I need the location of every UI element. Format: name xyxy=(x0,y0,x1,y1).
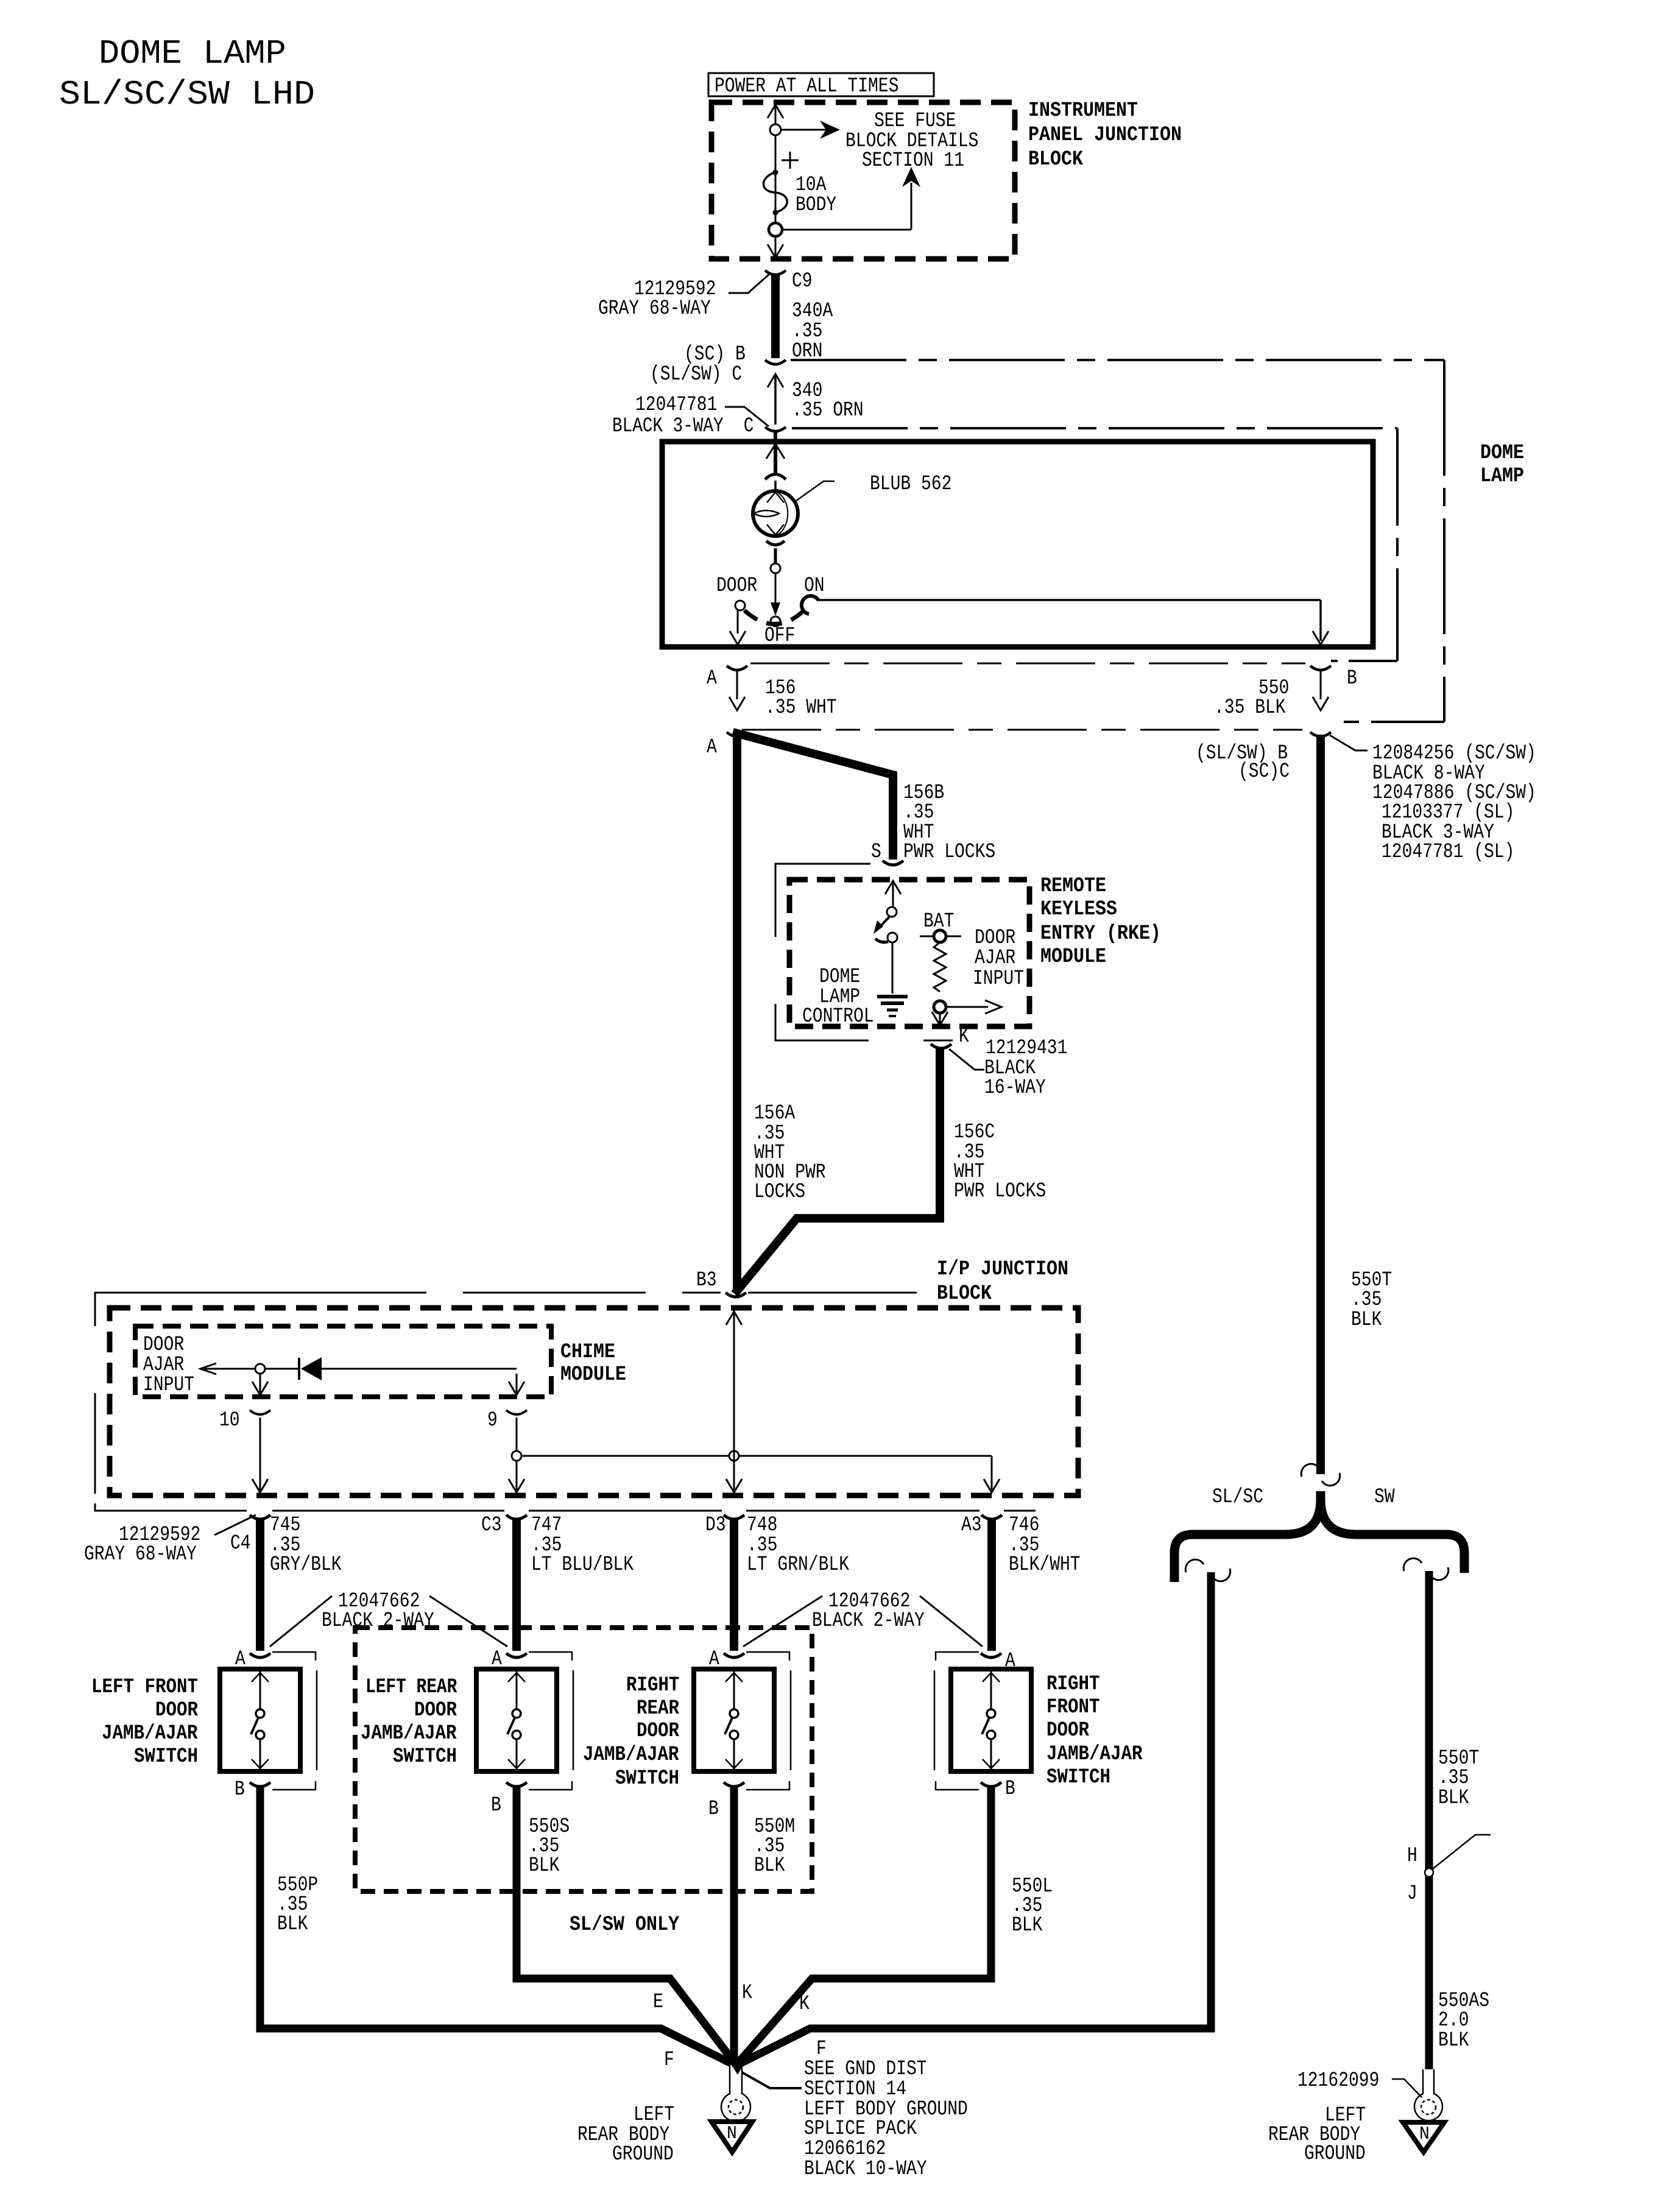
wire from power feed xyxy=(775,105,777,258)
connector A half of right front door jamb switch xyxy=(981,1653,1001,1657)
ground bar 3 xyxy=(887,1009,898,1012)
ground bar 1 xyxy=(877,995,908,998)
svg-text:BLK: BLK xyxy=(1438,2029,1469,2052)
connector B3 half xyxy=(725,1293,746,1297)
pin 9 wire arrowhead xyxy=(509,1479,524,1492)
svg-text:SL/SC: SL/SC xyxy=(1212,1486,1263,1509)
left rear door jamb switch upper lead xyxy=(516,1672,518,1709)
IPJB bracket bottom seg 4 xyxy=(1004,1510,1036,1512)
svg-text:B3: B3 xyxy=(696,1269,717,1292)
IPJB bracket bottom seg 1 xyxy=(272,1510,504,1512)
RKE module outline xyxy=(789,880,1029,1026)
wire 746 xyxy=(987,1518,996,1651)
leader to connector C xyxy=(725,407,769,426)
harness bracket line xyxy=(742,729,1302,731)
left front door jamb switch pivot contact xyxy=(256,1709,264,1718)
fuse end dot bottom xyxy=(773,210,778,215)
left rear door jamb switch bracket side xyxy=(573,1670,574,1770)
svg-text:INPUT: INPUT xyxy=(973,967,1024,990)
connector A3 harness half xyxy=(981,1515,1002,1519)
svg-text:MODULE: MODULE xyxy=(560,1363,626,1386)
svg-text:A3: A3 xyxy=(961,1514,982,1537)
svg-text:POWER AT ALL TIMES: POWER AT ALL TIMES xyxy=(715,75,898,98)
power label box xyxy=(708,73,934,96)
A3 drop arrowhead xyxy=(984,1479,1000,1492)
diode D1 xyxy=(301,1357,322,1380)
dome lamp enclosure outer bottom xyxy=(1344,721,1444,723)
RKE bracket left xyxy=(775,864,777,1040)
RKE switch pivot xyxy=(887,907,897,917)
svg-text:(SL/SW) C: (SL/SW) C xyxy=(650,363,742,386)
svg-text:GROUND: GROUND xyxy=(612,2143,674,2166)
ON contact hook xyxy=(802,596,819,614)
left rear door jamb switch top tick xyxy=(508,1673,525,1682)
wire 745 xyxy=(256,1518,264,1651)
wire 550S run xyxy=(517,1786,734,2062)
right rear door jamb switch top tick xyxy=(725,1673,743,1682)
splice junction wedge xyxy=(726,2056,748,2075)
ON feed arrowhead xyxy=(1313,631,1329,644)
connector 9 half xyxy=(506,1410,527,1414)
svg-text:CHIME: CHIME xyxy=(560,1341,615,1364)
svg-text:B: B xyxy=(235,1778,245,1801)
svg-text:K: K xyxy=(742,1982,752,2005)
svg-text:12047781 (SL): 12047781 (SL) xyxy=(1382,841,1514,864)
ground symbol N right xyxy=(1403,2122,1444,2152)
IPJB bracket top xyxy=(244,1292,721,1294)
leader 12047662 to C4 switch xyxy=(270,1596,332,1647)
switch common drop xyxy=(775,573,777,606)
connector C4 harness half xyxy=(250,1515,270,1519)
wire 156C run xyxy=(735,1047,940,1294)
fuse 10A BODY symbol xyxy=(763,172,787,213)
SW break squiggle upper xyxy=(1403,1558,1422,1571)
I/P junction block outline xyxy=(110,1308,1078,1495)
svg-text:F: F xyxy=(664,2049,674,2072)
connector B half of left front door jamb switch xyxy=(250,1782,270,1787)
svg-text:DOME: DOME xyxy=(1480,442,1524,465)
svg-text:INPUT: INPUT xyxy=(143,1374,194,1397)
pin 9 wire in block xyxy=(516,1417,518,1490)
DOOR contact xyxy=(735,601,745,610)
ring terminal left hole xyxy=(729,2100,743,2114)
B3 wire arrowhead up xyxy=(726,1312,742,1325)
RKE contact curl xyxy=(875,939,888,942)
diode bar xyxy=(298,1358,300,1380)
svg-text:PWR LOCKS: PWR LOCKS xyxy=(903,841,995,864)
svg-text:KEYLESS: KEYLESS xyxy=(1040,898,1117,921)
wire 748 xyxy=(730,1518,738,1651)
svg-text:BLK/WHT: BLK/WHT xyxy=(1009,1553,1081,1576)
svg-text:B: B xyxy=(1347,667,1357,690)
fuse end dot top xyxy=(773,170,778,175)
left rear door jamb switch box xyxy=(476,1669,557,1771)
chime junction node xyxy=(255,1364,265,1374)
left front door jamb switch lower contact xyxy=(256,1731,264,1739)
RKE switch blade xyxy=(878,917,889,928)
dome lamp enclosure outer top xyxy=(791,359,1444,361)
svg-text:C4: C4 xyxy=(230,1532,251,1555)
svg-text:RIGHT: RIGHT xyxy=(626,1674,680,1697)
IPJB bracket bottom left corner xyxy=(95,1503,247,1511)
left front door jamb switch box xyxy=(220,1669,300,1771)
crossbar to A3 xyxy=(521,1455,992,1457)
plus mark xyxy=(782,152,799,169)
svg-text:OFF: OFF xyxy=(764,624,795,648)
right front door jamb switch blade xyxy=(982,1718,989,1734)
svg-text:ON: ON xyxy=(804,574,825,598)
RKE bracket top xyxy=(775,864,870,872)
pin 10 wire arrowhead xyxy=(252,1479,268,1492)
svg-text:N: N xyxy=(1419,2124,1430,2145)
wire to section arrow xyxy=(782,229,911,231)
dome lamp enclosure inner top xyxy=(792,427,1397,429)
riser to section arrow xyxy=(911,183,912,230)
svg-text:BLK: BLK xyxy=(529,1854,560,1877)
bulb socket upper arc xyxy=(765,475,786,480)
node on B3 wire xyxy=(729,1451,739,1461)
BAT contact lead left xyxy=(920,936,934,937)
pin A lamp-side half xyxy=(727,666,747,670)
ring terminal right outline xyxy=(1414,2069,1442,2120)
left rear door jamb switch bracket bottom xyxy=(529,1781,572,1790)
svg-text:.35 BLK: .35 BLK xyxy=(1214,696,1286,719)
left front door jamb switch top tick xyxy=(252,1673,269,1682)
right front door jamb switch bracket bottom xyxy=(936,1781,979,1790)
svg-text:AJAR: AJAR xyxy=(975,947,1015,970)
wire 550T SW run xyxy=(1425,1571,1433,2069)
left rear door jamb switch lower contact xyxy=(512,1731,521,1739)
connector C9 upper half xyxy=(765,270,786,275)
arrowhead to fuse note xyxy=(820,121,840,139)
chime input line xyxy=(204,1368,256,1370)
wire 550 break squiggle lower xyxy=(1322,1473,1340,1486)
right front door jamb switch pivot contact xyxy=(987,1709,995,1718)
switch wiper arrowhead xyxy=(771,602,780,616)
svg-text:S: S xyxy=(871,841,881,864)
chime input arrowhead xyxy=(200,1363,216,1374)
leader to bulb label xyxy=(796,481,835,501)
svg-text:BLOCK: BLOCK xyxy=(937,1282,992,1305)
arrowhead wire 340 xyxy=(768,374,783,387)
leader from H-J xyxy=(1433,1835,1491,1869)
switch throw arc xyxy=(744,609,805,624)
svg-text:DOOR: DOOR xyxy=(414,1699,457,1722)
IPJB bracket left xyxy=(94,1293,96,1505)
svg-text:(SC)C: (SC)C xyxy=(1238,760,1290,783)
svg-text:GRAY 68-WAY: GRAY 68-WAY xyxy=(598,297,711,320)
left front door jamb switch blade xyxy=(251,1718,258,1734)
left front door jamb switch lower lead xyxy=(259,1739,261,1769)
pin B lamp-side half xyxy=(1310,666,1331,670)
connector B half of right front door jamb switch xyxy=(981,1782,1001,1787)
wire 156B branch xyxy=(733,732,893,860)
connector D3 harness half xyxy=(724,1515,744,1519)
svg-text:PWR LOCKS: PWR LOCKS xyxy=(954,1180,1046,1203)
connector A harness half xyxy=(727,732,747,736)
leader 12047662 to A3 switch xyxy=(920,1596,983,1647)
connector K half xyxy=(931,1044,951,1048)
pin K lead xyxy=(939,1012,941,1023)
svg-text:9: 9 xyxy=(487,1409,498,1432)
inline connection H-J xyxy=(1425,1868,1433,1877)
door ajar output arrowhead xyxy=(985,1000,1001,1014)
dome lamp enclosure outer right xyxy=(1443,360,1445,722)
svg-text:C3: C3 xyxy=(481,1514,502,1537)
svg-text:A: A xyxy=(707,667,717,690)
right front door jamb switch upper lead xyxy=(990,1672,992,1709)
connector B half of left rear door jamb switch xyxy=(506,1782,527,1787)
leader splice pack xyxy=(742,2072,802,2088)
svg-text:JAMB/AJAR: JAMB/AJAR xyxy=(102,1722,198,1745)
svg-text:LT BLU/BLK: LT BLU/BLK xyxy=(531,1553,634,1576)
svg-text:BLK: BLK xyxy=(277,1913,308,1936)
connector A half of left front door jamb switch xyxy=(250,1653,270,1657)
svg-text:PANEL JUNCTION: PANEL JUNCTION xyxy=(1028,124,1182,147)
svg-text:JAMB/AJAR: JAMB/AJAR xyxy=(1046,1743,1143,1766)
arrowhead up to section 11 xyxy=(902,167,920,187)
wire 156 main drop xyxy=(733,733,741,1293)
wire 550 run from pin B xyxy=(1316,735,1325,1474)
wire 550T SL/SC run xyxy=(739,1572,1211,2064)
ON feed across lamp xyxy=(819,599,1321,601)
right rear door jamb switch bottom tick xyxy=(725,1759,743,1768)
leader to C4 xyxy=(214,1515,256,1535)
svg-text:E: E xyxy=(653,1991,663,2014)
RKE bracket bottom right xyxy=(923,1040,953,1042)
left rear door jamb switch bracket top xyxy=(529,1652,572,1661)
right rear door jamb switch lower lead xyxy=(733,1739,735,1769)
svg-text:16-WAY: 16-WAY xyxy=(984,1076,1046,1100)
svg-text:SECTION 11: SECTION 11 xyxy=(862,149,964,172)
svg-text:SWITCH: SWITCH xyxy=(615,1767,679,1790)
svg-text:LT GRN/BLK: LT GRN/BLK xyxy=(747,1553,849,1576)
right front door jamb switch bracket top xyxy=(936,1652,979,1661)
A3 drop xyxy=(991,1456,993,1490)
arrow to connector C9 xyxy=(768,244,783,258)
connector B harness half xyxy=(1310,732,1331,736)
connector C9 lower half xyxy=(765,360,786,364)
svg-text:JAMB/AJAR: JAMB/AJAR xyxy=(361,1722,457,1745)
svg-text:BLACK 10-WAY: BLACK 10-WAY xyxy=(804,2158,927,2181)
svg-text:DOOR: DOOR xyxy=(637,1720,680,1743)
pin K arrowhead xyxy=(932,1012,948,1025)
wire 550M run xyxy=(730,1786,738,2065)
leader to connector K xyxy=(949,1049,984,1070)
dome lamp enclosure inner right xyxy=(1396,428,1399,661)
door ajar output line xyxy=(946,1006,988,1008)
svg-text:GRY/BLK: GRY/BLK xyxy=(270,1553,342,1576)
svg-text:LOCKS: LOCKS xyxy=(754,1181,805,1204)
pin B lead xyxy=(1320,670,1322,699)
leader 12047662 to C3 switch xyxy=(429,1596,507,1647)
svg-text:JAMB/AJAR: JAMB/AJAR xyxy=(583,1743,679,1767)
pin A lead xyxy=(736,670,738,699)
svg-text:DOOR: DOOR xyxy=(155,1699,199,1722)
pin B arrowhead xyxy=(1313,697,1329,710)
svg-text:10: 10 xyxy=(219,1409,240,1432)
DOOR drop arrowhead xyxy=(730,631,746,644)
bulb inner arc xyxy=(777,492,788,535)
connector C half xyxy=(765,427,786,431)
wire 340A xyxy=(771,274,780,358)
RKE bracket bottom left xyxy=(775,1032,869,1040)
node on pin 9 wire xyxy=(512,1451,521,1461)
svg-text:I/P JUNCTION: I/P JUNCTION xyxy=(937,1258,1068,1281)
ground bar 4 xyxy=(889,1015,896,1017)
svg-text:GRAY 68-WAY: GRAY 68-WAY xyxy=(84,1543,197,1566)
SW break squiggle lower xyxy=(1430,1567,1449,1580)
IPJB bracket bottom seg 2 xyxy=(529,1510,722,1512)
svg-text:N: N xyxy=(727,2124,737,2144)
instrument panel junction block outline xyxy=(711,102,1015,259)
RKE feed arrowhead xyxy=(885,881,901,894)
bulb tick top xyxy=(767,492,784,503)
right rear door jamb switch box xyxy=(694,1669,774,1771)
OFF contact xyxy=(771,616,780,626)
bulb filament xyxy=(754,510,779,517)
dome lamp enclosure inner bottom xyxy=(1331,660,1397,662)
svg-text:.35 WHT: .35 WHT xyxy=(765,696,837,719)
left front door jamb switch bracket side xyxy=(316,1670,318,1770)
svg-text:BODY: BODY xyxy=(796,194,836,217)
wire into dome lamp xyxy=(774,430,777,473)
BAT contact xyxy=(934,930,946,942)
svg-text:BLACK 2-WAY: BLACK 2-WAY xyxy=(812,1609,925,1633)
pin 10 wire in block xyxy=(259,1417,261,1490)
connector 10 half xyxy=(250,1410,270,1414)
svg-text:K: K xyxy=(959,1025,969,1048)
connector S half xyxy=(883,861,903,865)
Y split to SL/SC and SW xyxy=(1174,1491,1464,1582)
svg-text:12162099: 12162099 xyxy=(1297,2069,1379,2092)
right rear door jamb switch blade xyxy=(725,1718,732,1734)
dome lamp housing xyxy=(662,442,1373,647)
wire 340 xyxy=(774,375,777,425)
svg-text:BLK: BLK xyxy=(1351,1308,1382,1332)
right rear door jamb switch bracket bottom xyxy=(746,1781,789,1790)
chime pin 9 arrowhead xyxy=(509,1382,524,1395)
B3 wire arrowhead down xyxy=(726,1479,742,1492)
bulb top lead xyxy=(774,481,777,492)
left front door jamb switch bottom tick xyxy=(252,1759,269,1768)
arrow to power label xyxy=(768,105,783,118)
left rear door jamb switch pivot contact xyxy=(512,1709,521,1718)
svg-text:ENTRY (RKE): ENTRY (RKE) xyxy=(1040,922,1161,945)
IPJB bracket top left corner xyxy=(95,1293,244,1300)
right front door jamb switch lower lead xyxy=(990,1739,992,1769)
svg-text:.35 ORN: .35 ORN xyxy=(792,399,864,422)
SL/SC break squiggle upper xyxy=(1185,1559,1204,1572)
svg-text:J: J xyxy=(1407,1882,1417,1905)
svg-text:H: H xyxy=(1407,1845,1417,1868)
svg-text:INSTRUMENT: INSTRUMENT xyxy=(1028,99,1138,122)
left rear door jamb switch lower lead xyxy=(516,1739,518,1769)
connector A half of right rear door jamb switch xyxy=(724,1653,744,1657)
junction node upper xyxy=(770,124,781,135)
leader to connector B xyxy=(1330,735,1368,750)
svg-text:DOME LAMP: DOME LAMP xyxy=(99,34,286,73)
junction node lower xyxy=(769,223,782,236)
B3 wire in block xyxy=(733,1310,735,1490)
right rear door jamb switch upper lead xyxy=(733,1672,735,1709)
right rear door jamb switch lower contact xyxy=(730,1731,738,1739)
svg-text:BLK: BLK xyxy=(1438,1787,1469,1810)
ring terminal left outline xyxy=(721,2065,750,2122)
right rear door jamb switch bracket top xyxy=(746,1652,789,1661)
SL/SW only group outline xyxy=(355,1628,812,1891)
wire 550P run xyxy=(260,1786,731,2063)
leader 12047662 to D3 switch xyxy=(743,1596,822,1647)
svg-text:12047781: 12047781 xyxy=(635,394,717,417)
wire 747 xyxy=(512,1518,521,1651)
svg-text:REAR: REAR xyxy=(637,1697,680,1720)
chime pin 10 arrowhead xyxy=(252,1382,268,1395)
left front door jamb switch upper lead xyxy=(259,1672,261,1709)
svg-text:SWITCH: SWITCH xyxy=(393,1745,457,1768)
right front door jamb switch top tick xyxy=(983,1673,1000,1682)
svg-text:REMOTE: REMOTE xyxy=(1040,875,1106,898)
bulb socket lower arc xyxy=(766,541,785,545)
bulb tick bottom xyxy=(767,524,784,535)
wire 550 break squiggle upper xyxy=(1301,1464,1319,1477)
right front door jamb switch bracket side xyxy=(934,1670,936,1770)
switch common node xyxy=(771,563,780,573)
svg-text:B: B xyxy=(491,1794,501,1817)
svg-text:FRONT: FRONT xyxy=(1046,1696,1100,1719)
DOOR contact drop xyxy=(737,610,739,634)
IPJB bracket top right xyxy=(748,1292,917,1294)
svg-text:SW: SW xyxy=(1374,1486,1395,1509)
RKE switch feed xyxy=(892,882,894,907)
svg-text:BLK: BLK xyxy=(1012,1914,1043,1937)
svg-text:GROUND: GROUND xyxy=(1304,2142,1366,2166)
RKE lower contact xyxy=(888,933,897,942)
chime pin 10 lead xyxy=(259,1374,261,1393)
SL/SC break squiggle lower xyxy=(1212,1569,1230,1581)
RKE blade arrowhead xyxy=(874,920,883,934)
right front door jamb switch lower contact xyxy=(987,1731,995,1739)
leader to C9 xyxy=(729,274,769,293)
svg-text:B: B xyxy=(1005,1778,1015,1801)
svg-text:B: B xyxy=(708,1798,719,1821)
svg-text:C9: C9 xyxy=(792,270,813,293)
svg-text:BLK: BLK xyxy=(754,1854,785,1877)
svg-text:LEFT FRONT: LEFT FRONT xyxy=(91,1676,198,1699)
chime module outline xyxy=(135,1326,551,1397)
svg-text:SWITCH: SWITCH xyxy=(1046,1766,1110,1789)
svg-text:BLUB 562: BLUB 562 xyxy=(870,473,951,496)
bulb bottom lead xyxy=(774,548,777,563)
bulb 562 xyxy=(753,491,798,536)
svg-text:SL/SC/SW LHD: SL/SC/SW LHD xyxy=(59,75,315,114)
chime pin 9 lead xyxy=(516,1374,518,1393)
svg-text:RIGHT: RIGHT xyxy=(1046,1673,1100,1696)
ring terminal right hole xyxy=(1421,2100,1436,2114)
svg-text:LEFT REAR: LEFT REAR xyxy=(365,1676,457,1699)
door ajar resistor xyxy=(934,942,946,992)
right front door jamb switch box xyxy=(951,1669,1031,1771)
svg-text:SL/SW ONLY: SL/SW ONLY xyxy=(570,1913,680,1936)
diode cathode line xyxy=(322,1368,517,1370)
svg-text:A: A xyxy=(707,736,717,759)
svg-text:DOOR: DOOR xyxy=(1046,1719,1090,1742)
left front door jamb switch bracket bottom xyxy=(272,1781,316,1790)
wire 550L run xyxy=(738,1786,991,2063)
RKE ground lead xyxy=(892,942,894,994)
connector A half of left rear door jamb switch xyxy=(506,1653,527,1657)
svg-text:DOOR: DOOR xyxy=(716,574,757,598)
